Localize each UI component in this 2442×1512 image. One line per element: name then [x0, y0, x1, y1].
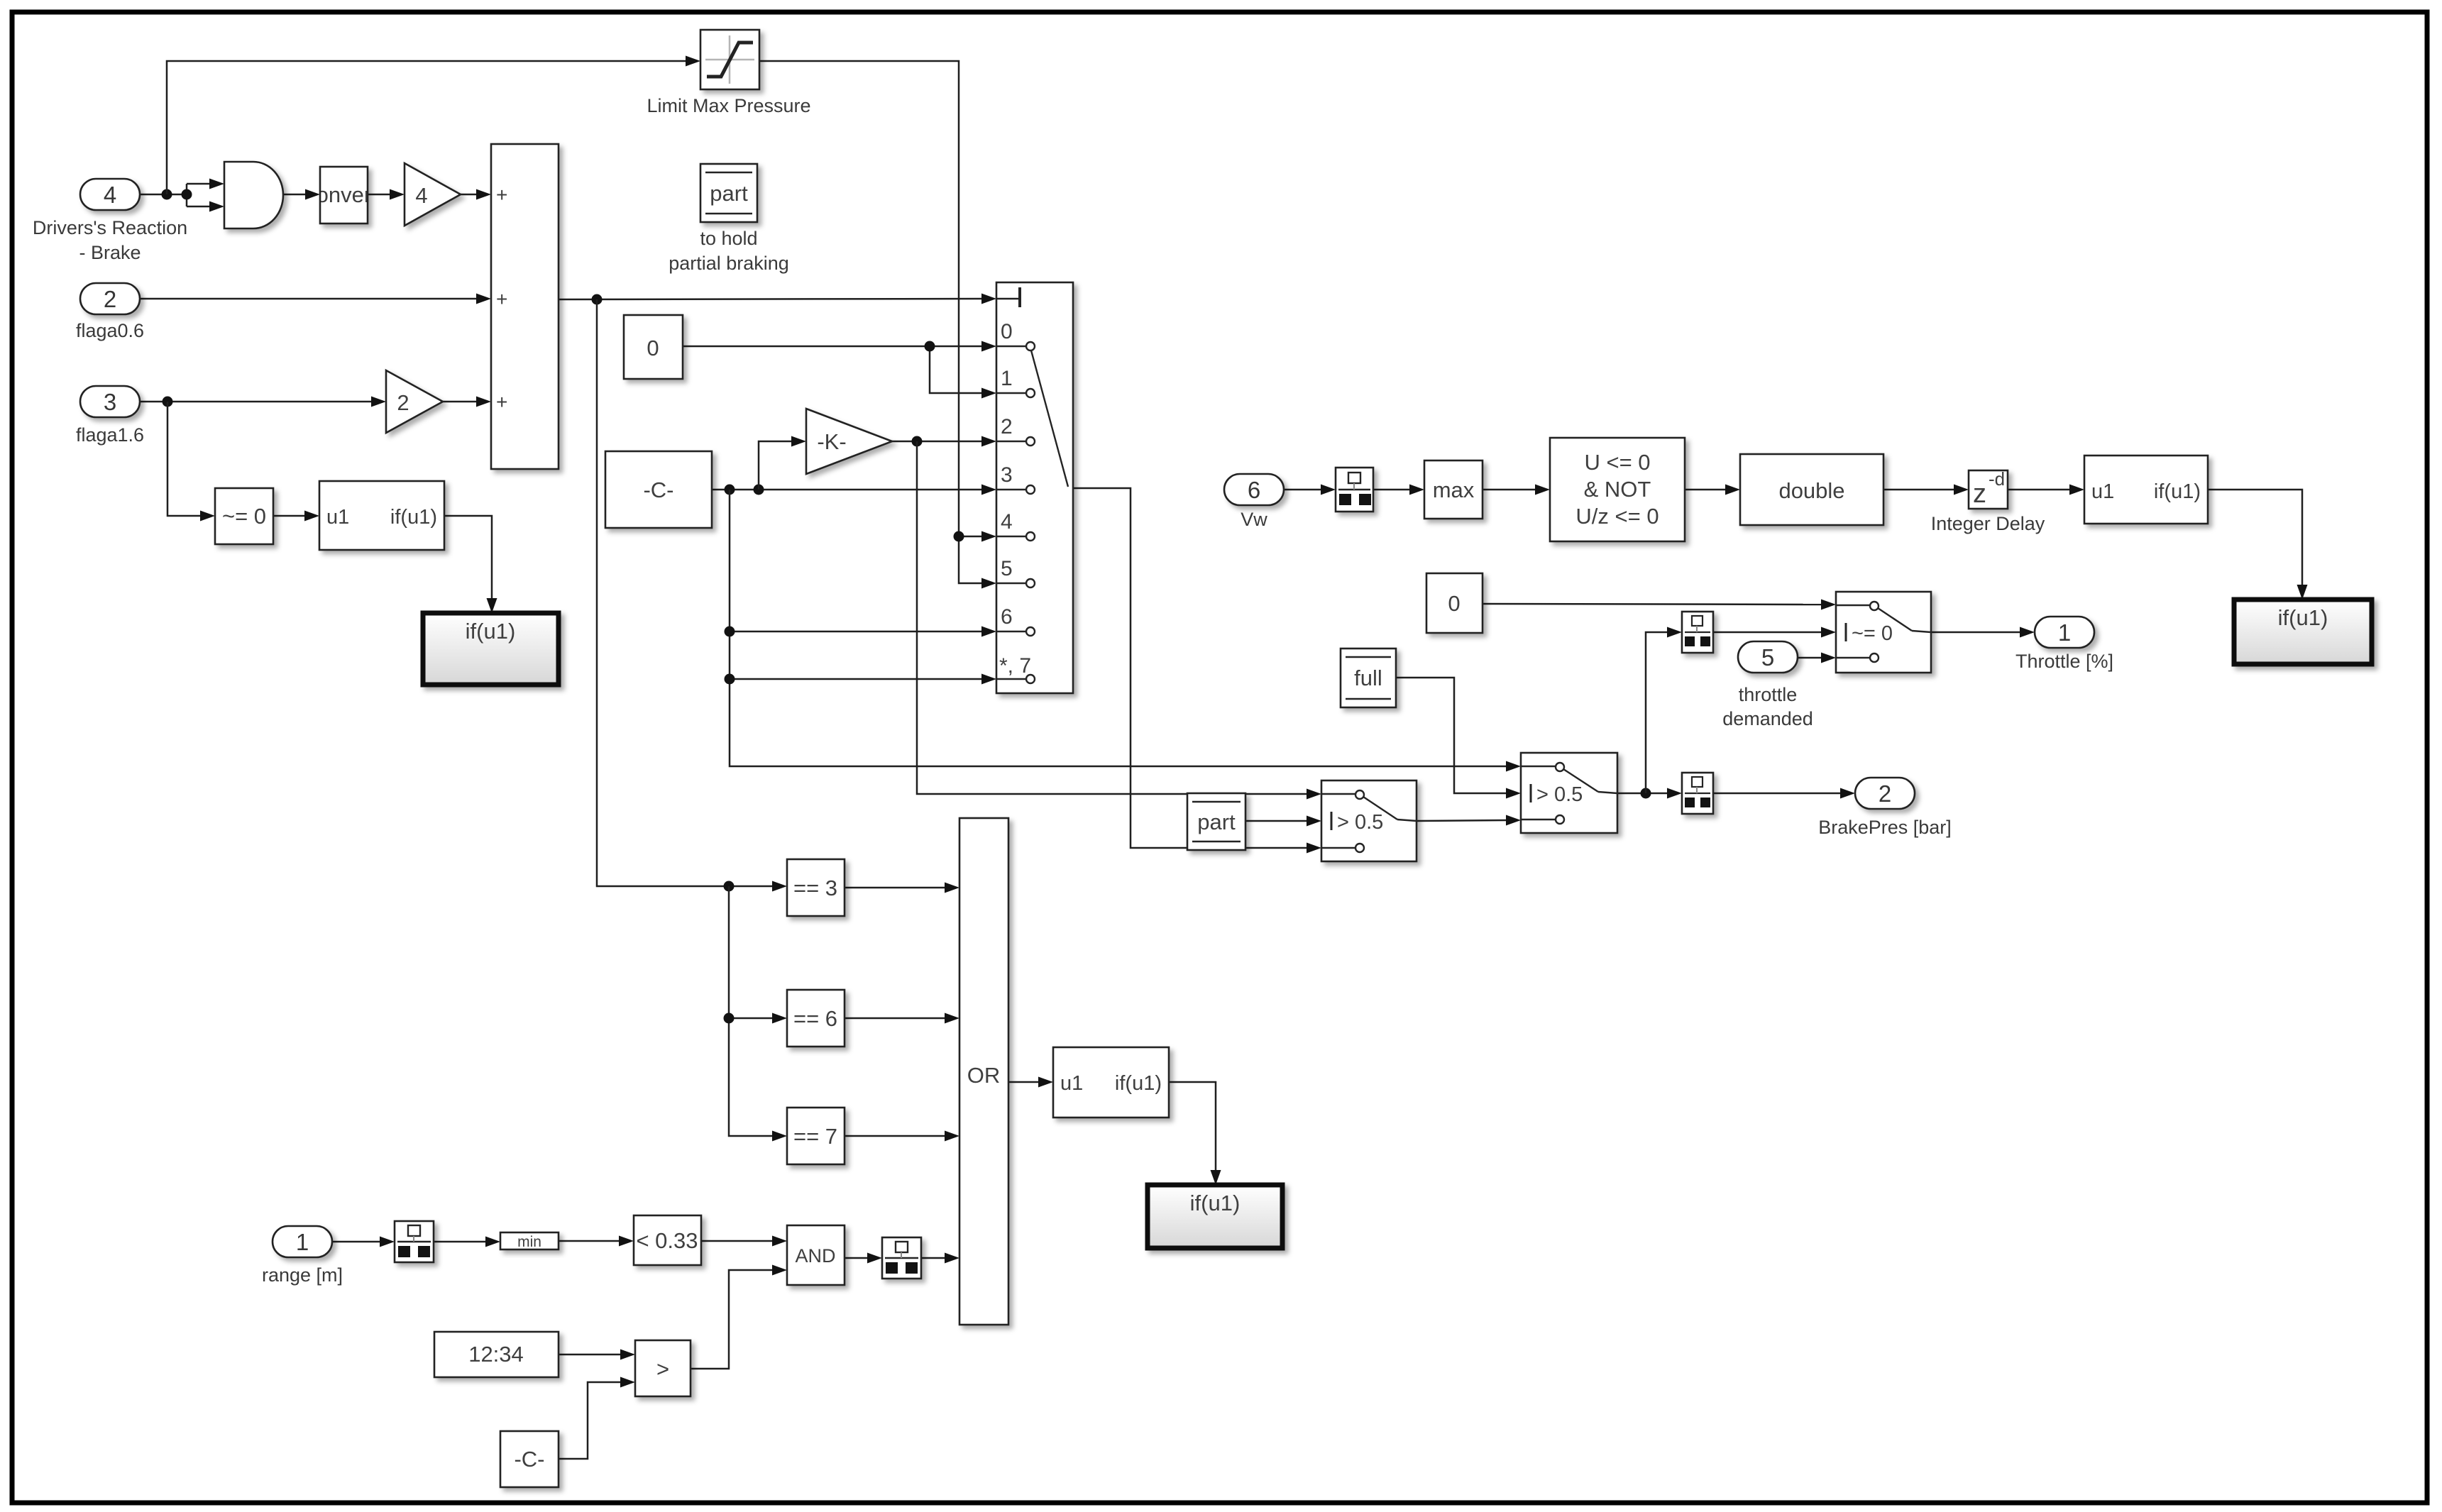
wire if block 3 to if-action subsystem 3 [2208, 490, 2308, 600]
svg-text:2: 2 [104, 286, 116, 312]
svg-text:4: 4 [104, 182, 116, 208]
data store part 2 [1187, 793, 1245, 850]
constant 0 no2 [1426, 573, 1483, 633]
svg-text:u1: u1 [326, 506, 349, 529]
svg-text:6: 6 [1001, 605, 1013, 629]
svg-text:-d: -d [1989, 468, 2005, 490]
logical AND gate [224, 162, 283, 228]
svg-text:4: 4 [415, 183, 427, 208]
data store full [1341, 649, 1396, 707]
wire port4 up to saturation [167, 56, 700, 195]
wire Vw chain [1284, 485, 2084, 495]
wire port3 to gain2 [140, 397, 386, 407]
svg-text:> 0.5: > 0.5 [1337, 811, 1383, 834]
logical OR block [959, 818, 1008, 1325]
svg-text:part: part [1197, 810, 1236, 834]
if-action subsystem 2 if(u1) [1148, 1185, 1282, 1248]
rate transition 5 [1682, 773, 1713, 814]
wire convert to gain4 [368, 189, 405, 200]
wire port5 to switch ~=0 input 3 [1798, 653, 1836, 663]
wire OR to if block 2 [1008, 1077, 1053, 1088]
wire saturation output down to switch ports 4 and 5 [759, 61, 996, 589]
wire sum junction down to equality comparisons [597, 299, 787, 892]
svg-text:1: 1 [1001, 367, 1013, 390]
svg-text:0: 0 [1001, 320, 1013, 343]
svg-text:+: + [496, 391, 507, 413]
wire gain4 to sum [461, 189, 491, 200]
svg-text:partial braking: partial braking [669, 253, 789, 274]
svg-text:Vw: Vw [1241, 509, 1267, 530]
wire full down to right switch control [1396, 678, 1521, 799]
if block 3 u1 if(u1) [2084, 456, 2208, 524]
equality ==7 [787, 1108, 845, 1164]
rate transition 2 [882, 1237, 921, 1279]
wire sum output to multiport switch control [559, 294, 996, 305]
wire port3 down to compare-to-zero [167, 402, 215, 522]
wire gain -K- down to left switch input 1 [917, 441, 1321, 800]
wire gain -K- to switch port 2 [892, 436, 996, 447]
wire AND to rate transition 2 [845, 1253, 882, 1264]
svg-text:5: 5 [1761, 644, 1774, 671]
svg-text:>: > [656, 1357, 669, 1381]
svg-text:5: 5 [1001, 557, 1013, 580]
svg-text:< 0.33: < 0.33 [636, 1228, 698, 1253]
svg-text:+: + [496, 288, 507, 310]
svg-text:*, 7: *, 7 [999, 654, 1031, 678]
gain 2 [386, 370, 443, 433]
svg-text:12:34: 12:34 [468, 1342, 524, 1367]
svg-text:u1: u1 [1060, 1072, 1083, 1095]
svg-text:if(u1): if(u1) [1190, 1191, 1241, 1215]
wire constant 0 to switch ports 0 and 1 [683, 341, 996, 399]
wire constant 0 no2 to switch ~=0 input 1 [1483, 600, 1836, 610]
wire multiport switch output to left switch input 3 [1073, 488, 1321, 854]
constant 12:34 [434, 1332, 559, 1377]
svg-text:flaga1.6: flaga1.6 [76, 424, 144, 446]
inport 2 flaga0.6 [76, 283, 144, 341]
switch > 0.5 left [1321, 780, 1417, 861]
svg-text:throttle: throttle [1739, 684, 1798, 705]
constant -C- [605, 451, 712, 528]
svg-text:2: 2 [1001, 415, 1013, 438]
wire junction down to ==6 and ==7 [724, 886, 788, 1142]
svg-text:U/z <= 0: U/z <= 0 [1575, 504, 1659, 529]
wire greater-than up to AND input 2 [691, 1265, 787, 1369]
wire gain2 to sum [443, 397, 491, 407]
svg-text:~= 0: ~= 0 [1852, 622, 1893, 645]
svg-text:OR: OR [967, 1063, 1001, 1088]
svg-text:6: 6 [1248, 477, 1260, 503]
wire ==6 to OR [845, 1013, 959, 1024]
wire switch ~=0 to Throttle outport [1931, 627, 2035, 638]
wire AND gate to convert [282, 189, 320, 200]
svg-text:to hold: to hold [700, 228, 757, 249]
svg-text:== 3: == 3 [793, 876, 837, 900]
logic block U<=0 & NOT U/z<=0 [1550, 438, 1685, 541]
constant 0 [624, 315, 683, 379]
rate transition 4 [1682, 612, 1713, 653]
wire right switch output to rate transition 5 [1617, 788, 1682, 799]
svg-text:if(u1): if(u1) [2278, 605, 2328, 630]
svg-text:0: 0 [1448, 591, 1460, 616]
saturation Limit Max Pressure [647, 30, 810, 116]
wire compare-to-zero to if block u1 [273, 511, 319, 522]
equality ==6 [787, 990, 845, 1047]
svg-text:- Brake: - Brake [79, 242, 141, 263]
wire 12:34 to greater-than [559, 1350, 635, 1360]
svg-text:+: + [496, 184, 507, 206]
inport 4 Drivers's Reaction - Brake [33, 179, 187, 263]
data store part 1 [669, 164, 789, 274]
inport 5 throttle demanded [1722, 641, 1813, 729]
svg-text:u1: u1 [2091, 480, 2114, 503]
switch > 0.5 right [1521, 753, 1617, 833]
svg-text:BrakePres [bar]: BrakePres [bar] [1818, 817, 1952, 838]
integer delay z-d [1931, 468, 2045, 534]
svg-text:3: 3 [104, 389, 116, 415]
svg-text:2: 2 [397, 390, 409, 415]
svg-text:min: min [517, 1234, 541, 1250]
svg-text:full: full [1354, 666, 1382, 690]
compare to zero ~= 0 [215, 488, 273, 544]
svg-text:Limit Max Pressure: Limit Max Pressure [647, 95, 810, 116]
gain -K- [806, 409, 892, 474]
max block [1424, 460, 1483, 519]
wire rate transition 2 to OR input 4 [921, 1253, 959, 1264]
svg-text:max: max [1433, 478, 1475, 502]
data type conversion double [1740, 454, 1883, 525]
svg-text:range [m]: range [m] [262, 1264, 343, 1286]
if block 2 u1 if(u1) [1053, 1047, 1169, 1118]
wire rate transition 5 to BrakePres outport [1713, 788, 1855, 799]
outport 2 BrakePres [1818, 778, 1952, 838]
wire ==7 to OR [845, 1131, 959, 1142]
compare < 0.33 [634, 1215, 701, 1265]
if block 1 u1 if(u1) [319, 481, 444, 550]
wire constant -C- to switch port 3 [712, 485, 996, 495]
svg-text:Integer Delay: Integer Delay [1931, 513, 2045, 534]
svg-text:double: double [1778, 478, 1844, 503]
wire port2 to sum [140, 294, 491, 304]
svg-text:U <= 0: U <= 0 [1584, 450, 1650, 475]
svg-text:Drivers's Reaction: Drivers's Reaction [33, 217, 187, 238]
min block [500, 1232, 559, 1250]
svg-text:AND: AND [795, 1245, 835, 1267]
svg-text:Throttle [%]: Throttle [%] [2015, 651, 2113, 672]
if-action subsystem 3 if(u1) [2234, 600, 2372, 664]
svg-text:demanded: demanded [1722, 708, 1813, 729]
wire junction up to rate transition 4 [1646, 627, 1682, 794]
svg-text:3: 3 [1001, 463, 1013, 487]
wire -C- 2 to greater-than input 2 [559, 1377, 635, 1459]
wire range chain [332, 1236, 787, 1247]
svg-text:if(u1): if(u1) [1115, 1072, 1162, 1095]
inport 1 range [262, 1226, 343, 1286]
wire ==3 to OR [845, 883, 959, 893]
sum block [491, 144, 559, 469]
inport 6 Vw [1224, 474, 1284, 530]
wire -C- down to switch ports 6 and 7 and right switch [725, 490, 1522, 772]
rate transition 3 [1336, 468, 1373, 512]
inport 3 flaga1.6 [76, 386, 144, 446]
wire if block to if-action subsystem 1 [444, 516, 497, 613]
svg-text:& NOT: & NOT [1584, 477, 1651, 502]
svg-text:~= 0: ~= 0 [222, 504, 266, 529]
wire if block 2 to if-action subsystem 2 [1169, 1082, 1221, 1185]
outport 1 Throttle [2015, 617, 2113, 672]
svg-text:if(u1): if(u1) [390, 506, 437, 529]
svg-text:flaga0.6: flaga0.6 [76, 320, 144, 341]
gain 4 [405, 163, 461, 226]
svg-text:== 6: == 6 [793, 1006, 837, 1031]
multiport switch [996, 282, 1073, 693]
svg-text:-K-: -K- [817, 429, 846, 454]
logical AND block [787, 1225, 845, 1285]
svg-text:4: 4 [1001, 510, 1013, 534]
wire port4 to AND gate split [140, 179, 224, 212]
wire rate transition 4 to switch ~=0 [1713, 627, 1836, 638]
convert block [305, 167, 378, 224]
svg-text:if(u1): if(u1) [466, 619, 516, 644]
svg-text:-C-: -C- [514, 1447, 544, 1472]
if-action subsystem 1 if(u1) [423, 613, 559, 685]
constant -C- 2 [500, 1431, 559, 1487]
wire part 2 to left switch control [1245, 816, 1321, 827]
svg-text:0: 0 [647, 336, 659, 360]
rate transition 1 [395, 1221, 434, 1262]
svg-text:part: part [710, 181, 748, 206]
svg-text:z: z [1973, 479, 1986, 509]
wire left switch to right switch input 3 [1417, 815, 1521, 826]
svg-text:> 0.5: > 0.5 [1536, 783, 1583, 806]
equality ==3 [787, 859, 845, 916]
svg-text:-C-: -C- [643, 478, 673, 502]
svg-text:2: 2 [1879, 780, 1891, 807]
svg-text:if(u1): if(u1) [2154, 480, 2201, 503]
wire -C- up to gain -K- [759, 436, 806, 490]
switch ~= 0 [1836, 592, 1931, 673]
svg-text:1: 1 [2058, 619, 2071, 646]
svg-text:== 7: == 7 [793, 1124, 837, 1149]
svg-text:1: 1 [296, 1229, 309, 1255]
relational greater-than [635, 1340, 691, 1396]
